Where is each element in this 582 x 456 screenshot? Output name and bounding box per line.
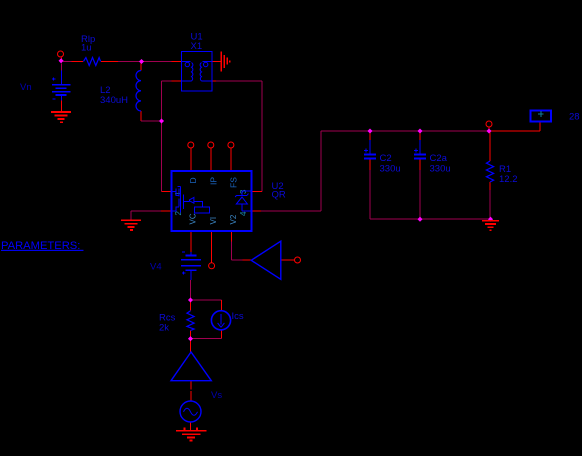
svg-text:V2: V2 xyxy=(229,214,238,224)
junction node B xyxy=(159,118,164,123)
wire: node D to node E xyxy=(420,130,489,132)
battery V4 xyxy=(181,252,201,280)
wire: R1 bottom red lead xyxy=(489,182,491,190)
wire: node A to transformer pin1 xyxy=(142,61,172,63)
ground (rotated) at transformer pin2 xyxy=(221,51,229,71)
wire: C2a down to bottom rail xyxy=(419,170,421,219)
wire: marker stem xyxy=(539,122,541,132)
wire: E2 base to Vs xyxy=(190,381,192,389)
wire: ground corner down xyxy=(130,211,132,219)
wire: node B up to transformer pin3 level xyxy=(161,81,163,121)
wire: down to U2 pin3 xyxy=(261,81,263,192)
zener diode inside U2 xyxy=(235,191,251,211)
svg-text:D: D xyxy=(188,177,198,183)
wire: L2 bottom stub xyxy=(140,111,142,121)
wire: up to output rail xyxy=(320,131,322,211)
ground left of U2 pin2 xyxy=(121,220,141,230)
voltage source Vn (battery) xyxy=(52,64,71,112)
inductor L2 xyxy=(136,71,141,112)
junction node A xyxy=(139,59,144,64)
wire: bottom rail C2a to R1 ground node xyxy=(420,218,491,220)
ground under R1 xyxy=(482,221,499,231)
wire: U2 top pin FS stub xyxy=(230,148,232,171)
wire: U2 pin2 stub xyxy=(161,210,172,212)
wire: Ics top stub xyxy=(220,300,222,311)
sine source Vs xyxy=(180,401,201,422)
svg-text:330u: 330u xyxy=(430,164,451,175)
wire: node A down to L2 top xyxy=(140,62,142,71)
wire: U2 pin VI stub xyxy=(211,231,213,263)
wire: Rlp to node A xyxy=(118,61,142,63)
junction node IN xyxy=(59,58,64,63)
svg-text:2k: 2k xyxy=(159,323,169,334)
wire: C2 top stub xyxy=(369,131,371,140)
junction node E xyxy=(486,128,491,133)
svg-text:C2: C2 xyxy=(380,153,392,164)
wire: C2a below-plate red lead xyxy=(419,160,421,171)
wire: U2 top pin IP stub xyxy=(210,148,212,171)
wire: L2 bottom to node B xyxy=(141,120,162,122)
wire: R1 top lead xyxy=(489,131,491,161)
terminal circle node E xyxy=(486,121,492,127)
ground under Vs xyxy=(176,428,207,441)
wire: transformer pin2 to ground stub xyxy=(212,61,221,63)
wire: pin4 to corner xyxy=(261,210,321,212)
wire: C2a top stub xyxy=(419,131,421,140)
terminal circle buffer output xyxy=(295,257,301,263)
junction node C xyxy=(367,128,372,133)
svg-text:4: 4 xyxy=(239,211,248,216)
wire: terminal stub to node IN xyxy=(61,58,63,62)
wire: V2 corner right xyxy=(232,259,243,261)
wire: node E to marker corner xyxy=(489,130,540,132)
wire: node C to node D xyxy=(370,130,420,132)
svg-text:VI: VI xyxy=(209,217,218,225)
wire: corner to U2 pin1 stub xyxy=(162,191,172,193)
wire: R1 to bottom rail xyxy=(489,190,491,219)
svg-text:Ics: Ics xyxy=(232,311,244,322)
junction node I xyxy=(188,336,193,341)
junction node D xyxy=(417,128,422,133)
wire: Rlp right lead red segment xyxy=(101,61,118,63)
wire: bottom rail C2 to C2a xyxy=(370,218,420,220)
wire: U2 pin4 stub xyxy=(252,210,262,212)
terminal circle at node IN xyxy=(58,51,64,57)
svg-text:PARAMETERS:: PARAMETERS: xyxy=(1,240,83,252)
svg-text:330u: 330u xyxy=(380,164,401,175)
svg-text:FS: FS xyxy=(229,177,239,188)
IC U2 box xyxy=(172,171,252,231)
wire: node I down to E2 apex xyxy=(190,339,192,352)
terminal circle pin FS xyxy=(228,142,234,148)
wire: C2 down to bottom rail xyxy=(369,170,371,219)
capacitor C2a xyxy=(414,140,426,159)
svg-text:X1: X1 xyxy=(191,41,203,52)
wire: pin2 to ground corner xyxy=(131,210,161,212)
voltage marker (probe) top right xyxy=(531,111,552,122)
wire: U2 pin3 stub xyxy=(252,191,263,193)
wire: C2 below-plate red lead xyxy=(369,160,371,171)
wire: node E terminal stem xyxy=(488,127,490,131)
svg-text:28: 28 xyxy=(569,112,580,123)
svg-text:IP: IP xyxy=(209,177,219,185)
junction node H xyxy=(188,297,193,302)
svg-text:V4: V4 xyxy=(150,262,162,273)
svg-text:12.2: 12.2 xyxy=(499,174,518,185)
terminal circle pin IP xyxy=(208,142,214,148)
wire: Rcs top lead xyxy=(190,300,192,311)
wire: V4 bottom to node H xyxy=(190,280,192,300)
ground under Vn xyxy=(51,112,71,122)
junction node G xyxy=(488,217,493,222)
wire: transformer pin1 stub xyxy=(172,61,182,63)
wire: rail to node C xyxy=(321,130,370,132)
svg-text:C2a: C2a xyxy=(430,153,448,164)
svg-text:Vs: Vs xyxy=(211,390,222,401)
wire: U2 pin VC stub to V4 xyxy=(190,231,192,252)
wire: V2 down xyxy=(231,242,233,261)
wire: Ics bottom to node I xyxy=(191,338,222,340)
svg-text:Vn: Vn xyxy=(20,82,32,93)
current source Ics xyxy=(211,311,230,330)
wire: Rcs bottom lead xyxy=(190,331,192,340)
wire: transformer pin4 to corner xyxy=(216,80,262,82)
wire: U2 top pin D stub xyxy=(190,148,192,171)
wire: node B down to U2 pin1 xyxy=(161,121,163,192)
capacitor C2 xyxy=(364,140,376,159)
wire: transformer pin4 stub xyxy=(212,80,216,82)
wire: buffer E1 output xyxy=(281,259,295,261)
svg-text:340uH: 340uH xyxy=(100,95,128,106)
mosfet inside U2 xyxy=(172,186,210,213)
svg-text:QR: QR xyxy=(272,190,286,201)
buffer E2 (up-pointing triangle) xyxy=(171,352,211,381)
terminal circle pin D xyxy=(188,142,194,148)
terminal circle pin VI xyxy=(209,263,215,269)
wire: transformer pin3 stub xyxy=(172,80,182,82)
junction node F xyxy=(417,217,422,222)
wire: node IN to Rlp left lead xyxy=(63,61,72,63)
wire: node H right to Ics branch xyxy=(191,299,222,301)
wire: to transformer pin3 xyxy=(162,80,172,82)
wire: Vs bottom to ground xyxy=(190,422,192,430)
wire: to buffer E1 apex xyxy=(242,259,251,261)
wire: U2 pin V2 stub xyxy=(231,231,233,242)
resistor Rlp xyxy=(83,58,100,66)
transformer U1 X1 xyxy=(182,52,213,92)
buffer E1 (left-pointing triangle) xyxy=(251,241,281,279)
svg-text:1u: 1u xyxy=(81,43,92,54)
wire: Ics bottom stub xyxy=(220,330,222,339)
resistor Rcs xyxy=(187,311,194,331)
svg-text:VC: VC xyxy=(189,213,198,224)
resistor R1 xyxy=(486,161,493,182)
